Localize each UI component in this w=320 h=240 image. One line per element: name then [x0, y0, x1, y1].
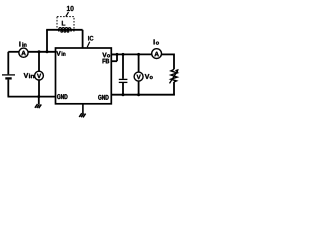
- pin label Vo: [102, 53, 106, 58]
- voltmeter V2 (Vo): [134, 72, 143, 81]
- ground G2 hatch 3: [83, 114, 86, 118]
- variable resistor RL arrow shaft: [170, 71, 178, 83]
- voltmeter V1 letter: [37, 74, 41, 78]
- pin stub Vo: [111, 53, 117, 55]
- wire up to inductor: [46, 30, 48, 52]
- ammeter A1 letter: [21, 51, 25, 56]
- wire bottom-right rail: [111, 94, 175, 96]
- pin label GND left: [57, 94, 67, 99]
- label Vin: [24, 73, 29, 78]
- wire inductor to IC top pin: [82, 30, 84, 48]
- IC U1 body: [56, 48, 112, 104]
- inductor L coil loops: [61, 30, 63, 32]
- wire output rail: [111, 53, 152, 55]
- label Vo right: [145, 74, 150, 79]
- label 10: [67, 6, 74, 11]
- pin label GND right: [98, 95, 108, 100]
- wire right corner down to load: [173, 54, 175, 70]
- node junction voltmeter Vo top: [137, 53, 140, 56]
- ammeter A1 (Iin): [19, 48, 28, 57]
- inductor L coil arcs: [59, 28, 72, 30]
- battery B long plate: [2, 74, 15, 76]
- ground G1 hatch 3: [39, 104, 42, 108]
- wire voltmeter Vin to bottom rail: [38, 80, 40, 97]
- pin stub FB: [111, 60, 117, 62]
- node junction Vo-FB: [116, 53, 119, 56]
- pin label Vin: [56, 51, 60, 56]
- label Iin: [19, 42, 20, 47]
- node junction capacitor top: [122, 53, 125, 56]
- node junction voltmeter Vo bottom: [137, 93, 140, 96]
- ammeter A2 (Io): [152, 49, 162, 59]
- wire bottom-left rail: [8, 96, 56, 98]
- node junction bottom-left rail: [37, 95, 40, 98]
- node junction Vin meter branch: [38, 50, 41, 53]
- ground G1 hatch 1: [35, 104, 38, 108]
- wire rail to ammeter Iin: [8, 51, 19, 53]
- label 10 leader line: [66, 12, 69, 17]
- ground G2 hatch 1: [79, 113, 82, 117]
- ground G2 hatch 2: [81, 113, 84, 117]
- label IC leader line: [87, 42, 90, 48]
- wire voltmeter Vo branch upper: [138, 54, 140, 72]
- wire source top vertical: [7, 52, 9, 75]
- wire voltmeter Vo branch lower: [138, 81, 140, 95]
- wire load to bottom corner: [173, 82, 175, 96]
- inductor L dashed outline: [57, 17, 74, 31]
- ammeter A2 letter: [154, 52, 158, 57]
- voltmeter V2 letter: [137, 75, 141, 79]
- ground G1 stub: [38, 97, 40, 104]
- wire ammeter to IC Vin pin: [28, 51, 56, 53]
- voltmeter V1 (Vin): [35, 71, 44, 80]
- wire top rail: [46, 29, 82, 31]
- wire capacitor branch upper: [122, 54, 124, 78]
- node junction capacitor bottom: [122, 93, 125, 96]
- wire Vo to FB vertical: [116, 54, 118, 61]
- capacitor C plate top: [119, 78, 128, 80]
- label IC: [88, 36, 93, 41]
- capacitor C plate bottom: [119, 81, 128, 83]
- battery B short plate: [5, 77, 11, 79]
- variable resistor RL zigzag: [171, 69, 177, 82]
- ground G1 hatch 2: [37, 104, 40, 108]
- ground G2 stub: [82, 104, 84, 114]
- wire ammeter Io to right corner: [162, 53, 175, 55]
- wire capacitor branch lower: [122, 83, 124, 95]
- label L: [62, 21, 65, 26]
- pin label FB: [103, 59, 110, 64]
- wire down to voltmeter Vin: [38, 52, 40, 72]
- label Io: [154, 39, 155, 44]
- variable resistor RL arrow head: [175, 69, 179, 73]
- wire battery to bottom rail: [7, 80, 9, 97]
- node junction inductor branch: [46, 50, 49, 53]
